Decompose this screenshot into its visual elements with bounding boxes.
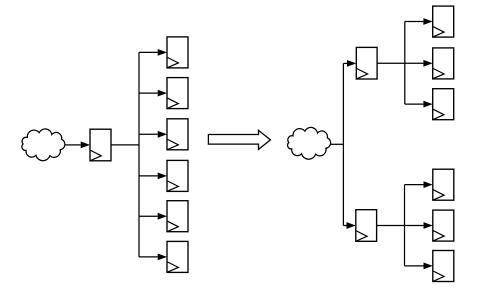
load flip-flop R2	[433, 48, 454, 79]
load flip-flop R1	[433, 6, 454, 37]
load flip-flop R5	[433, 210, 454, 241]
load flip-flop R6	[433, 251, 454, 282]
cloud: source logic (right)	[288, 127, 331, 159]
duplicated register B (bottom)	[356, 210, 377, 242]
wire: bottom bus branch to load R4	[405, 181, 433, 188]
wire: top bus branch to load R3	[405, 101, 433, 108]
wire: register A output to load R2	[377, 60, 433, 67]
block arrow: transformation (register duplication)	[208, 130, 270, 149]
wire: left cloud to register	[65, 142, 90, 149]
load flip-flop L4	[167, 160, 188, 191]
load flip-flop R3	[433, 89, 454, 120]
wire: fanout branch 4	[139, 173, 167, 180]
wire: fanout branch 6	[139, 254, 167, 261]
duplicated register A (top)	[356, 47, 377, 79]
wire: fanout branch 1	[139, 49, 167, 56]
wire: bottom fanout bus (vertical)	[404, 185, 406, 266]
wire: trunk to top duplicated register	[343, 60, 356, 67]
wire: trunk to bottom duplicated register	[343, 222, 355, 229]
load flip-flop L1	[167, 37, 188, 68]
wire: left fanout bus (vertical)	[138, 52, 140, 257]
load flip-flop L2	[167, 78, 188, 109]
cloud: source logic (left)	[22, 129, 65, 161]
wire: fanout branch 3	[139, 131, 167, 138]
load flip-flop R4	[433, 169, 454, 200]
register (left driver FF)	[90, 129, 111, 161]
wire: top fanout bus (vertical)	[404, 22, 406, 105]
wire: left driver FF output to fanout bus	[111, 144, 139, 146]
load flip-flop L5	[167, 201, 188, 232]
wire: fanout branch 2	[139, 90, 167, 97]
load flip-flop L3	[167, 119, 188, 150]
load flip-flop L6	[167, 241, 188, 272]
wire: split trunk (vertical)	[342, 63, 344, 225]
wire: register B output to load R5	[377, 222, 433, 229]
wire: fanout branch 5	[139, 213, 167, 220]
wire: bottom bus branch to load R6	[405, 263, 433, 270]
wire: top bus branch to load R1	[405, 18, 433, 25]
wire: right cloud to split trunk	[331, 143, 344, 145]
